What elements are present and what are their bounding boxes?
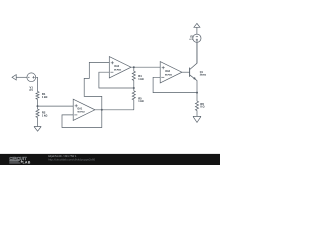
svg-text:OA2: OA2 xyxy=(114,65,119,68)
svg-text:V1: V1 xyxy=(30,85,34,89)
wire R5 to OA1 output row xyxy=(133,100,135,110)
resistor R4 xyxy=(132,71,135,80)
wire OA1 feedback loop xyxy=(62,110,102,128)
svg-text:MCP602: MCP602 xyxy=(78,112,85,114)
svg-text:MCP602: MCP602 xyxy=(114,70,121,72)
voltage source V2 xyxy=(193,34,201,42)
footer bar xyxy=(0,154,220,165)
svg-text:1 kΩ: 1 kΩ xyxy=(138,100,143,103)
ground (left) xyxy=(34,127,41,132)
Q1 emitter with arrow xyxy=(190,75,197,93)
op-amp OA1 xyxy=(73,99,95,120)
junction OA2 output xyxy=(133,66,135,68)
svg-text:6 V: 6 V xyxy=(190,39,194,41)
ground (right) xyxy=(193,116,201,122)
svg-text:1 kΩ: 1 kΩ xyxy=(42,96,47,99)
junction emitter node xyxy=(196,92,198,94)
wire node A to OA1 +in xyxy=(38,105,74,107)
wire OA1 output row xyxy=(95,109,134,111)
wire R1 to R2 xyxy=(37,99,39,109)
svg-text:LAB: LAB xyxy=(23,160,31,164)
svg-text:8 Ω: 8 Ω xyxy=(200,106,204,109)
svg-text:1 kΩ: 1 kΩ xyxy=(42,114,47,117)
svg-text:OA3: OA3 xyxy=(165,70,170,73)
wire riser OA1 out to OA2 +in xyxy=(84,62,109,109)
wire OA2 output to OA3 +in xyxy=(131,66,160,68)
wire: V1 left flag to V1 xyxy=(16,76,27,78)
wire OA2 -in loop to R4/R5 node xyxy=(99,72,134,88)
voltage source V1 xyxy=(27,73,36,82)
wire R6 to ground xyxy=(196,111,198,117)
svg-text:MCP602: MCP602 xyxy=(165,75,172,77)
resistor R6 xyxy=(195,101,198,110)
transistor Q1 base bar xyxy=(189,68,191,77)
wire V1 to R1 xyxy=(36,77,38,91)
resistor R1 xyxy=(36,92,39,100)
op-amp OA2 xyxy=(109,57,131,78)
node flag VIN (left arrow) xyxy=(12,75,16,80)
svg-text:2N3904: 2N3904 xyxy=(200,73,206,76)
resistor R2 xyxy=(36,109,39,117)
wire R4 to node xyxy=(133,80,135,90)
op-amp OA3 xyxy=(160,62,182,83)
wire OA3 -in loop to emitter node xyxy=(153,77,197,92)
wire OA2 out down to R4 xyxy=(133,67,135,71)
svg-text:OA1: OA1 xyxy=(77,107,82,110)
svg-text:http://circuitlab.com/c6vkdyuy: http://circuitlab.com/c6vkdyuygw2s66 xyxy=(48,158,95,162)
svg-text:8 V: 8 V xyxy=(29,90,33,92)
Q1 collector xyxy=(190,41,197,70)
wire V2 to Q1 collector xyxy=(196,42,198,63)
wire OA3 output to Q1 base xyxy=(182,71,190,73)
resistor R5 xyxy=(132,91,135,100)
wire emitter node to R6 xyxy=(196,93,198,102)
wire R2 to ground xyxy=(37,118,39,127)
svg-text:1 kΩ: 1 kΩ xyxy=(138,78,143,81)
power flag (up arrow) xyxy=(194,23,200,27)
node A junction xyxy=(37,105,39,107)
junction OA1 output xyxy=(101,109,103,111)
junction R4/R5 xyxy=(133,87,135,89)
